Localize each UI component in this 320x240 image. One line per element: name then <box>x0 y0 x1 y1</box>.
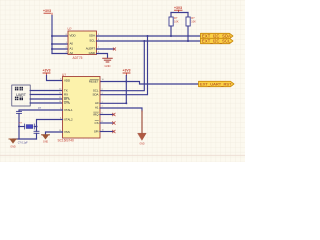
wire GND pin chip1 <box>97 54 108 59</box>
wire ALERT stub <box>97 48 115 50</box>
svg-text:UART: UART <box>16 93 27 97</box>
power +3V3 PWR4 pullups <box>174 6 182 13</box>
svg-text:U?: U? <box>62 73 66 77</box>
chip U? SC16IS740 <box>58 73 105 143</box>
junction rail/A0 <box>51 43 53 45</box>
wire A1 to gnd <box>100 108 142 111</box>
wire VDD chip2 <box>47 76 65 81</box>
svg-text:SDA: SDA <box>93 92 99 96</box>
svg-text:SDA: SDA <box>89 34 95 38</box>
wire R1 bottom leg to SDA <box>170 26 172 36</box>
wire CTS <box>30 102 62 104</box>
junction 3V3/A0 <box>125 102 127 104</box>
junction R1/SDA <box>170 35 172 37</box>
no-ERC cross IRQ <box>112 113 115 116</box>
svg-text:A2: A2 <box>70 51 74 55</box>
junction SDA drop <box>147 35 149 37</box>
wire RESET to label <box>100 82 198 85</box>
svg-text:GND: GND <box>139 144 144 146</box>
junction R2/SCL <box>187 40 189 42</box>
svg-text:SCL: SCL <box>89 39 95 43</box>
svg-text:ADT75: ADT75 <box>73 56 83 60</box>
svg-text:RX: RX <box>64 93 68 97</box>
wire XTAL2 <box>37 120 63 132</box>
wire SPI stub <box>100 131 114 133</box>
svg-text:C? 0.1uF: C? 0.1uF <box>18 142 28 145</box>
wire A2 branch <box>52 53 68 55</box>
svg-text:SPI: SPI <box>94 130 99 134</box>
op chip U? ADT75 <box>66 27 100 60</box>
svg-text:GND: GND <box>89 51 95 55</box>
wire RX <box>30 94 62 96</box>
svg-text:A0: A0 <box>70 42 74 46</box>
wire SDA bus <box>97 35 201 37</box>
wire CS stub <box>100 122 114 124</box>
power +3V3 PWR3 reset pullup <box>122 69 130 76</box>
svg-text:EXT_UART_RST: EXT_UART_RST <box>200 82 232 87</box>
svg-text:GND: GND <box>43 141 49 144</box>
svg-text:A0: A0 <box>95 101 99 105</box>
wire SDA drop to chip2 <box>100 36 148 95</box>
svg-text:R?: R? <box>191 16 195 20</box>
svg-text:CS: CS <box>94 121 98 125</box>
svg-text:SC16IS740: SC16IS740 <box>58 139 75 143</box>
capacitor C? left <box>11 111 22 142</box>
wire SCL drop to chip2 <box>100 41 144 91</box>
svg-text:U?: U? <box>68 27 72 31</box>
svg-text:ALERT: ALERT <box>86 47 95 51</box>
junction 3V3/RESET <box>125 81 127 83</box>
svg-text:+3V3: +3V3 <box>43 9 51 13</box>
svg-text:A1: A1 <box>70 47 74 51</box>
ground GND VSS <box>42 135 50 144</box>
net label DIST_I2C_SCL <box>201 38 234 43</box>
wire A1 branch <box>52 48 68 50</box>
wire A0 branch <box>52 43 68 45</box>
junction SCL drop <box>143 40 145 42</box>
svg-text:A1: A1 <box>95 106 99 110</box>
svg-text:VDD: VDD <box>64 79 70 83</box>
svg-text:EXT_I2C_SCL: EXT_I2C_SCL <box>202 39 231 44</box>
svg-text:GND: GND <box>10 145 16 148</box>
junction rail/VDD <box>51 35 53 37</box>
svg-text:+3V3: +3V3 <box>122 69 130 73</box>
wire SCL bus <box>97 40 201 42</box>
svg-text:VSS: VSS <box>64 130 70 134</box>
wire 3V3 rail to chip1 address pins <box>51 16 53 54</box>
wire 3V3 to RESET <box>125 76 127 104</box>
wire XTAL1 <box>19 110 63 111</box>
power +3V3 PWR2 chip2 VDD <box>42 69 50 76</box>
svg-text:GND: GND <box>105 64 111 68</box>
resistor R? 10K (SDA pullup) <box>169 16 179 26</box>
wire TX <box>30 90 62 92</box>
resistor R? 10K (SCL pullup) <box>186 16 196 26</box>
no-ERC cross CS <box>112 122 115 125</box>
wire pullup top bar <box>171 12 188 14</box>
junction crystal left <box>18 126 20 128</box>
power +3V3 PWR1 top-left <box>43 9 52 16</box>
net label DIST_I2C_SDA <box>201 33 234 38</box>
svg-text:Y?: Y? <box>19 121 23 125</box>
wire RTS <box>30 98 62 100</box>
ground arrow GND (A0/A1) <box>138 133 146 145</box>
net label DIST_UART_RST <box>199 81 235 86</box>
no-ERC cross ALERT <box>113 48 116 51</box>
crystal Y? <box>19 121 37 129</box>
ground GND crystal <box>9 139 17 148</box>
svg-text:R?: R? <box>174 16 178 20</box>
ground GND chip1 <box>103 58 112 68</box>
wire A0 to 3V3 stem <box>100 102 126 104</box>
wire R2 bottom leg to SCL <box>187 26 189 41</box>
connector box UART text <box>12 85 30 106</box>
capacitor C? right <box>34 108 42 139</box>
wire R2 top leg <box>187 13 189 18</box>
svg-text:+3V3: +3V3 <box>42 69 50 73</box>
svg-text:10K: 10K <box>191 20 196 24</box>
sheet border line <box>0 154 245 156</box>
svg-text:XTAL1: XTAL1 <box>64 108 73 112</box>
junction rail/A1 <box>51 48 53 50</box>
svg-text:XTAL2: XTAL2 <box>64 118 73 122</box>
junction crystal right <box>36 126 38 128</box>
wire gnd rail crystal <box>13 138 37 140</box>
svg-text:VDD: VDD <box>70 34 76 38</box>
no-ERC cross SPI <box>112 130 115 133</box>
svg-text:RESET: RESET <box>89 80 99 84</box>
svg-text:IRQ: IRQ <box>93 113 99 117</box>
wire IRQ stub <box>100 114 114 116</box>
svg-text:+3V3: +3V3 <box>174 6 182 10</box>
svg-text:10K: 10K <box>174 20 179 24</box>
wire R1 top leg <box>170 13 172 18</box>
wire VDD branch <box>52 35 68 37</box>
wire VSS <box>46 132 63 135</box>
